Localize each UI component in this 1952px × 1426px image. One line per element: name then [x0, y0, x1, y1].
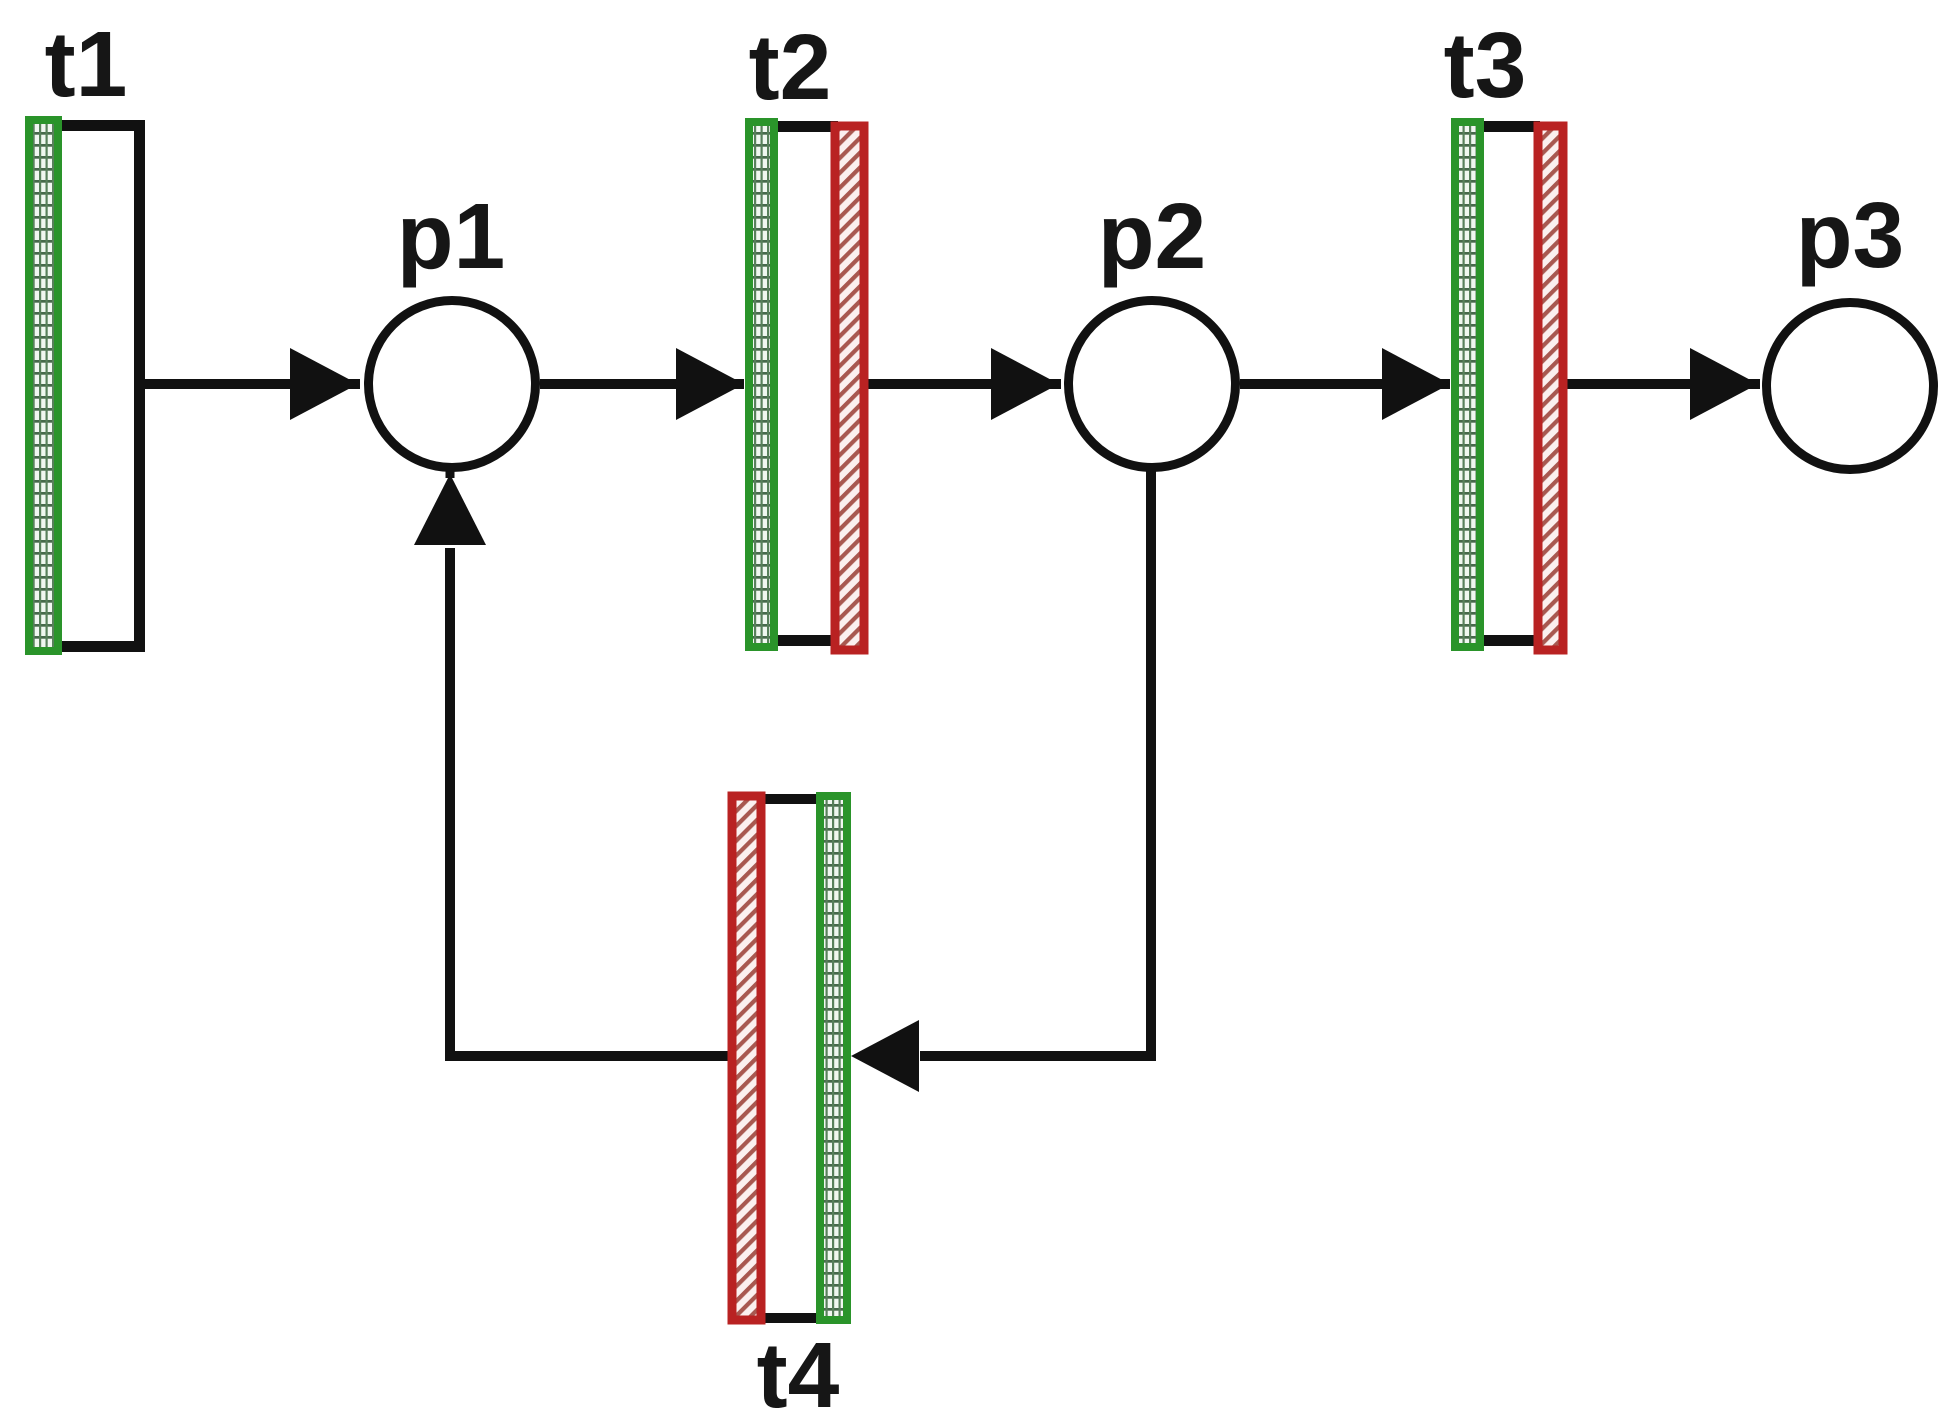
svg-text:t2: t2	[749, 15, 832, 119]
svg-text:p1: p1	[397, 184, 506, 288]
svg-text:t4: t4	[757, 1323, 840, 1426]
wire arrow t3 to p3	[1567, 348, 1760, 420]
transition t1	[29, 120, 140, 651]
place p1	[369, 301, 536, 468]
transition t3	[1455, 121, 1563, 650]
wire arrow p2 to t3	[1240, 348, 1450, 420]
wire arrow p1 to t2	[540, 348, 744, 420]
svg-text:t3: t3	[1444, 13, 1527, 117]
wire arrow t2 to p2	[868, 348, 1061, 420]
svg-text:t1: t1	[45, 12, 128, 116]
place p3	[1767, 303, 1934, 470]
wire arrow t1 to p1	[140, 348, 360, 420]
transition t4	[732, 794, 847, 1323]
transition t2	[749, 121, 864, 650]
place p2	[1069, 301, 1236, 468]
svg-text:p2: p2	[1098, 184, 1207, 288]
svg-text:p3: p3	[1796, 183, 1905, 287]
wire t4 to p1 with arrow	[414, 470, 731, 1056]
wire p2 down to t4 with arrow	[851, 470, 1151, 1092]
